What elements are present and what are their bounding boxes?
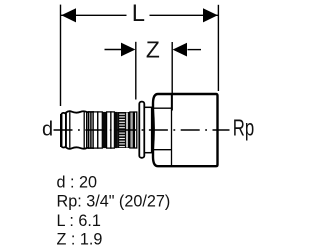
neck between flange and hex xyxy=(144,107,152,152)
neck thick right edge xyxy=(151,107,154,152)
center line xyxy=(54,129,230,131)
dimension L line right segment xyxy=(150,14,219,16)
hex face chamfer arc xyxy=(153,108,154,150)
dimension L line left segment xyxy=(61,14,127,16)
dimension Z right tail line xyxy=(188,49,202,51)
dimension Z left tail line xyxy=(105,49,123,51)
dimension L extension line right xyxy=(217,5,219,91)
sleeve ring 5 xyxy=(111,112,115,148)
dimension Z extension line right xyxy=(171,42,173,111)
press sleeve bulge section outline xyxy=(66,111,89,149)
sleeve dark band 1 xyxy=(102,112,106,148)
dimension Z arrowhead right (pointing left) xyxy=(173,43,187,57)
dimension Z extension line left xyxy=(135,42,137,100)
sleeve ring 1 inner line xyxy=(90,112,92,148)
sleeve gray band xyxy=(130,112,134,148)
knurled section xyxy=(117,112,129,148)
flange disc xyxy=(139,102,144,158)
hex face line top xyxy=(153,107,171,109)
svg-text:d: d xyxy=(42,118,53,140)
sleeve ring 2 xyxy=(93,112,98,148)
sleeve bulge inner line 1 xyxy=(69,112,71,148)
press sleeve end cap xyxy=(61,113,66,148)
sleeve ring 3 xyxy=(98,112,103,148)
svg-text:Rp: 3/4" (20/27): Rp: 3/4" (20/27) xyxy=(57,193,171,211)
svg-text:d : 20: d : 20 xyxy=(57,174,98,192)
hex face line bottom xyxy=(153,149,171,151)
sleeve dark band 2 xyxy=(114,112,117,148)
svg-text:L: L xyxy=(132,0,145,27)
svg-text:Z : 1.9: Z : 1.9 xyxy=(57,231,103,249)
sleeve ring 1 xyxy=(89,112,94,148)
dimension L arrowhead left xyxy=(61,8,76,22)
sleeve last rib xyxy=(134,112,136,148)
sleeve ring 4 xyxy=(107,112,111,148)
dimension L extension line left xyxy=(60,5,62,106)
dimension L arrowhead right xyxy=(203,8,218,22)
svg-text:Rp: Rp xyxy=(233,115,254,141)
hex collar and body outline xyxy=(153,94,218,166)
svg-text:Z: Z xyxy=(146,37,160,63)
sleeve bulge inner line 3 xyxy=(86,112,88,148)
dimension Z arrowhead left (pointing right) xyxy=(121,43,135,57)
sleeve bulge inner line 2 xyxy=(83,112,85,149)
svg-text:L : 6.1: L : 6.1 xyxy=(57,212,101,230)
press sleeve end cap thick left edge xyxy=(60,114,62,147)
hex-body divider line xyxy=(171,94,173,166)
